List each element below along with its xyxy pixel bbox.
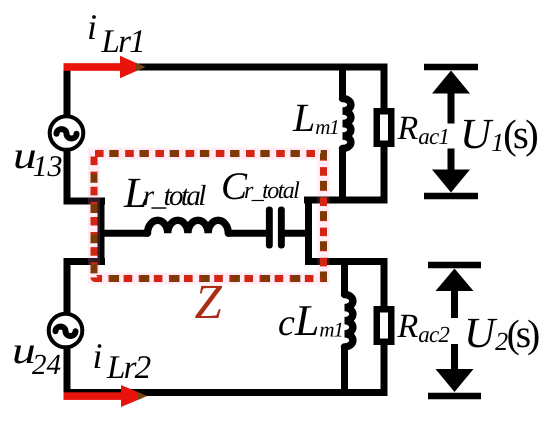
current arrow iLr2 bbox=[64, 385, 148, 407]
label Cr_total bbox=[221, 167, 298, 206]
label Rac2 bbox=[398, 310, 450, 346]
AC source u13 bbox=[50, 116, 84, 150]
voltage arrow U2(s) bbox=[428, 265, 481, 396]
current arrow iLr1 bbox=[64, 56, 146, 78]
wire: loop2 right vertical upper (to Rac2) bbox=[381, 258, 388, 309]
wire: Lm1 branch lower stem bbox=[339, 147, 346, 204]
label U1(s) bbox=[460, 113, 535, 156]
wire: loop1 top rail bbox=[64, 64, 388, 71]
wire: loop1 left vertical (source top lead) bbox=[64, 64, 71, 118]
wire: source u24 top lead bbox=[64, 258, 71, 313]
label iLr1 bbox=[87, 9, 144, 59]
capacitor Cr_total plates bbox=[266, 207, 285, 249]
label cLm1 bbox=[278, 299, 343, 343]
wire: tank lead right bbox=[284, 230, 310, 237]
label U2(s) bbox=[464, 312, 536, 355]
inductor Lm1 coil bbox=[343, 99, 351, 149]
node: tank left stub bbox=[98, 198, 105, 266]
label u13 bbox=[13, 137, 63, 182]
inductor Lr_total coil bbox=[148, 220, 229, 233]
resistor Rac1 bbox=[377, 111, 392, 144]
wire: tank lead middle bbox=[228, 230, 267, 237]
label Lm1 bbox=[293, 98, 339, 138]
wire: loop1 bottom rail bbox=[304, 197, 388, 204]
wire: loop2 bottom rail bbox=[64, 389, 388, 396]
wire: loop1 left horizontal into tank bbox=[64, 198, 106, 205]
dashed box Z (impedance outline) bbox=[94, 154, 324, 279]
wire: Lm1 branch upper stem bbox=[339, 64, 346, 100]
wire: cLm1 branch lower stem bbox=[341, 345, 348, 396]
label u24 bbox=[12, 332, 62, 380]
node: tank right stub bbox=[305, 198, 312, 266]
wire: source u24 bottom lead bbox=[64, 347, 71, 396]
voltage arrow U1(s) bbox=[424, 67, 478, 196]
wire: cLm1 branch upper stem bbox=[341, 258, 348, 296]
wire: loop1 right vertical lower (from Rac1) bbox=[381, 144, 388, 204]
wire: source u13 bottom lead bbox=[64, 150, 71, 205]
resistor Rac2 bbox=[377, 309, 392, 342]
wire: loop2 right vertical lower (from Rac2) bbox=[381, 342, 388, 396]
AC source u24 bbox=[49, 314, 83, 348]
wire: tank lead left bbox=[99, 230, 148, 237]
label Lr_total bbox=[124, 172, 204, 215]
label Rac1 bbox=[398, 112, 450, 148]
wire: loop2 left horizontal from tank bbox=[64, 258, 106, 265]
inductor cLm1 coil bbox=[345, 295, 353, 347]
wire: loop1 right vertical upper (to Rac1) bbox=[381, 64, 388, 111]
wire: loop2 top rail bbox=[305, 258, 388, 265]
label iLr2 bbox=[93, 338, 150, 386]
label Z bbox=[195, 277, 222, 326]
